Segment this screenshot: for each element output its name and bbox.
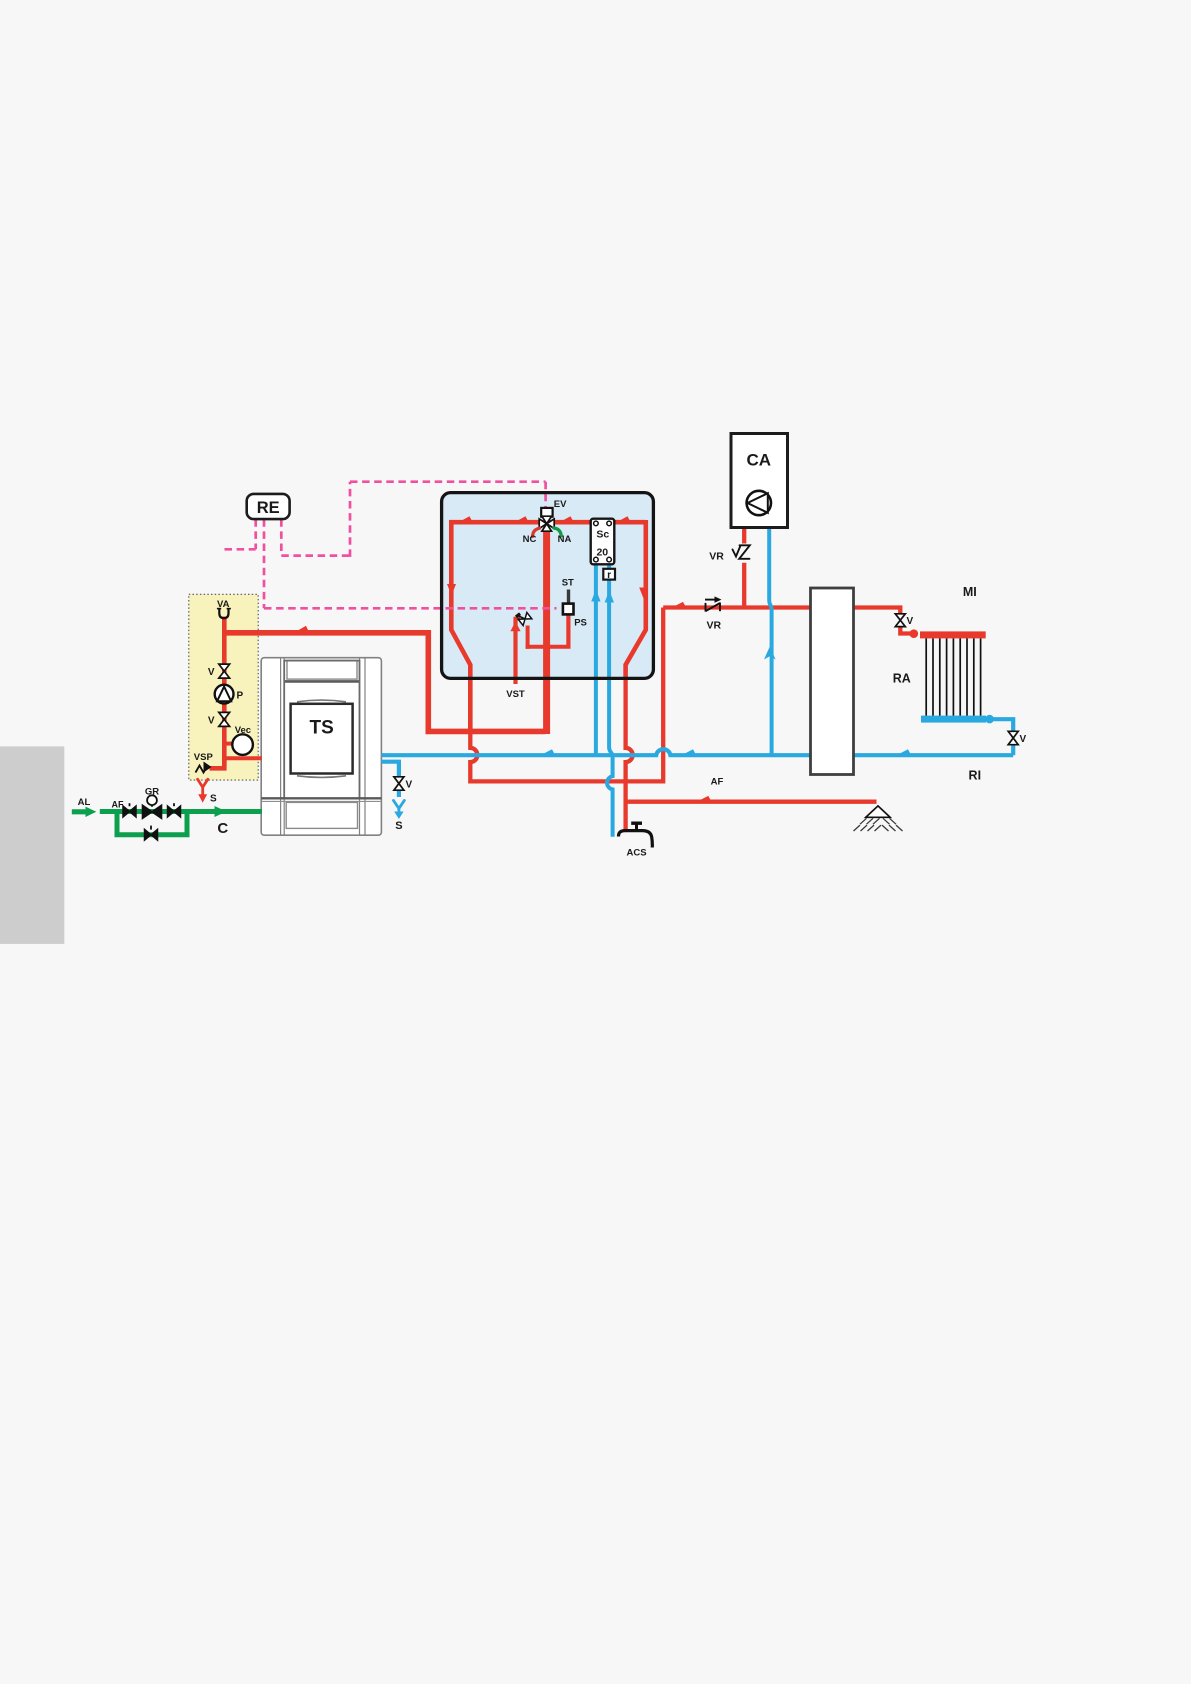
wire: PS sensor pipe: [566, 614, 570, 647]
boiler TS outer cabinet: [261, 658, 381, 836]
flow arrow up on CA return riser: [764, 647, 776, 660]
svg-text:Sc: Sc: [596, 529, 609, 541]
pressure reducer GR: [143, 795, 162, 818]
wire: thick boiler flow header to module junction: [222, 633, 545, 732]
svg-text:AF: AF: [711, 777, 724, 788]
wire: discharge line AF to drain funnel: [626, 800, 877, 804]
flow arrow up at VST drain: [510, 621, 520, 631]
svg-text:r: r: [607, 569, 611, 581]
blue DHW module enclosure border: [442, 493, 654, 679]
NA arc: [554, 528, 562, 536]
block arrow AL: [72, 807, 97, 817]
svg-text:V: V: [208, 667, 215, 678]
svg-text:TS: TS: [310, 718, 334, 739]
svg-text:EV: EV: [554, 499, 567, 510]
check valve VR (on separator feed): [705, 596, 722, 611]
svg-text:ST: ST: [562, 578, 574, 589]
wire: thick EV center drop pipe: [543, 527, 550, 734]
TS drain discharge arrow S (blue): [394, 801, 405, 813]
expansion vessel Vec: [232, 734, 253, 755]
safety valve VSP: [196, 762, 212, 773]
valve AF (mains): [123, 803, 136, 817]
yellow pump-group enclosure: [189, 594, 258, 780]
drain funnel: [854, 806, 903, 831]
flow arrow up on Sc20 cold leg: [591, 590, 600, 602]
wire: CA boiler return riser: [769, 528, 771, 756]
pump P: [215, 685, 234, 704]
wire: VST valve drop: [526, 626, 530, 649]
wire: boiler supply riser (VA line): [222, 617, 227, 767]
flow arrows on module header: [459, 516, 473, 522]
svg-text:P: P: [237, 690, 244, 701]
flow arrow down on right downcomer: [639, 588, 648, 600]
wire: Sc20 cold leg to return line: [594, 564, 598, 755]
svg-text:VR: VR: [707, 620, 722, 632]
wire: green bypass loop: [117, 812, 187, 835]
diverter valve EV actuator: [541, 508, 552, 517]
wire: VST drain stub and arrow: [514, 617, 521, 621]
flow arrow down on left downcomer: [447, 584, 456, 596]
svg-text:AF: AF: [112, 800, 124, 810]
air vent VA: [217, 609, 231, 619]
wire: VST loop horizontal: [526, 645, 571, 649]
valve V on TS drain: [394, 777, 404, 790]
node: radiator return dot: [985, 715, 994, 724]
NC arc: [533, 528, 540, 536]
wire: right funnel leg down to ACS tee (hop over blue return): [626, 679, 633, 830]
control line RE short leg to left stub: [254, 519, 257, 549]
svg-text:PS: PS: [574, 617, 587, 628]
wire: module left downcomer with funnel: [451, 520, 470, 731]
diverter valve EV body: [539, 516, 554, 531]
svg-text:VA: VA: [217, 599, 230, 610]
wire: mains inlet green line C: [100, 809, 262, 814]
svg-text:GR: GR: [145, 787, 159, 798]
wire: radiator supply from separator: [854, 608, 901, 614]
flow arrow on C line: [215, 806, 227, 817]
hydraulic separator: [811, 588, 854, 775]
flow switch r: [603, 569, 615, 581]
wire: expansion vessel branch: [222, 742, 234, 746]
boiler unit CA: [731, 434, 788, 528]
bypass valve: [145, 826, 158, 841]
svg-text:RI: RI: [969, 769, 982, 783]
flow arrow on discharge line: [697, 796, 712, 802]
wire: branch to TS at VSP level: [224, 756, 262, 760]
sensor ST probe: [567, 590, 570, 604]
control line stub left: [225, 548, 256, 551]
valve V upper (pump group): [219, 664, 230, 678]
wire: radiator return drop to valve: [986, 719, 1013, 731]
svg-text:RA: RA: [893, 672, 911, 686]
svg-text:ACS: ACS: [626, 848, 646, 859]
wire: TS drain branch: [381, 762, 399, 777]
control line RE middle leg: [263, 519, 266, 608]
svg-text:RE: RE: [257, 499, 280, 517]
svg-text:V: V: [1020, 734, 1027, 745]
svg-text:V: V: [907, 616, 914, 627]
valve V lower (pump group): [219, 712, 230, 726]
control line RE right leg: [280, 519, 283, 555]
wire: module right downcomer with funnel: [626, 520, 646, 679]
wire: CA boiler flow drop (check valve gap): [742, 528, 746, 544]
tap ACS: [618, 823, 652, 847]
svg-text:VSP: VSP: [194, 752, 214, 763]
wire: module internal top header: [449, 520, 646, 525]
check valve VR (on CA flow): [733, 545, 750, 559]
wire: separator feed header: [663, 605, 810, 609]
svg-text:CA: CA: [747, 451, 772, 470]
flow arrow on separator feed: [672, 602, 687, 608]
svg-text:S: S: [395, 820, 402, 832]
wire: Sc20 mains leg down to open end (hops red line): [607, 564, 613, 837]
flow arrow up on Sc20 mains leg: [605, 591, 614, 603]
svg-text:V: V: [406, 780, 413, 791]
drain cock VST: [515, 609, 532, 626]
wire: junction drop, hop over blue, bottom run to riser: [470, 608, 663, 782]
svg-text:MI: MI: [963, 585, 977, 599]
svg-text:Vec: Vec: [235, 725, 251, 736]
svg-text:S: S: [210, 794, 217, 805]
wire: blue return separator to radiator valve: [854, 753, 1014, 757]
control line to EV riser: [281, 554, 350, 557]
plate exchanger Sc 20: [591, 519, 615, 565]
thermostat RE: [247, 494, 290, 519]
flow arrow on boiler header: [294, 626, 309, 633]
control line to ST sensor: [264, 607, 557, 610]
valve V on radiator supply: [895, 614, 905, 627]
flow arrow on RI return: [897, 749, 912, 755]
blue DHW module enclosure fill: [442, 493, 654, 679]
safety discharge arrow S (red): [198, 779, 208, 795]
wire: blue system return TS to separator: [381, 749, 810, 755]
radiator RA: [920, 631, 986, 722]
svg-text:20: 20: [596, 547, 608, 559]
valve V on radiator return: [1008, 731, 1018, 744]
valve after GR: [168, 803, 181, 817]
svg-text:NA: NA: [558, 534, 572, 545]
svg-text:NC: NC: [523, 534, 537, 545]
wire: elbow to safety valve VSP: [210, 760, 225, 768]
svg-text:VR: VR: [709, 551, 724, 563]
flow arrow left on return (RI): [682, 749, 697, 755]
node: radiator supply dot: [910, 629, 919, 638]
svg-text:V: V: [208, 716, 215, 727]
left margin gray bar: [0, 746, 64, 944]
svg-text:C: C: [217, 820, 228, 837]
flow arrow left on return (near module): [541, 749, 556, 755]
svg-text:AL: AL: [78, 797, 91, 808]
svg-text:VST: VST: [506, 689, 525, 700]
